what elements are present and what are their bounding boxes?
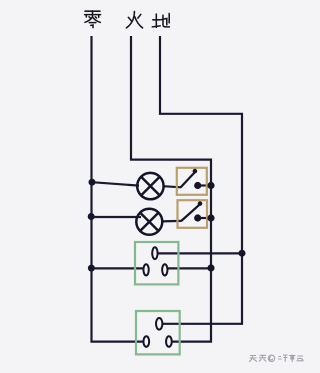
lamp L2 bbox=[136, 209, 162, 235]
label 火 (live) bbox=[126, 11, 142, 28]
junction: live bus / switch S2 output bbox=[207, 214, 214, 221]
switch S2 box bbox=[178, 200, 208, 228]
wire: lamp L2 to switch S2 bbox=[162, 220, 182, 223]
junction: neutral bus / lamp L1 wire bbox=[89, 179, 96, 186]
label 零 (neutral) bbox=[85, 11, 101, 28]
wire: socket X1 live pin to live bus bbox=[167, 267, 211, 269]
wire: neutral bus (零 line down and right to socket X2) bbox=[92, 36, 144, 342]
wire: switch S2 output to live bus bbox=[198, 217, 213, 219]
switch S1 box bbox=[177, 168, 207, 195]
socket X1 neutral slot bbox=[143, 264, 148, 275]
socket X2 neutral slot bbox=[143, 336, 149, 347]
wire: lamp L1 to switch S1 bbox=[163, 186, 181, 187]
wire: socket X1 earth pin to earth bus bbox=[158, 252, 243, 254]
wire: switch S1 output to live bus bbox=[198, 184, 213, 186]
lamp L1 bbox=[137, 173, 163, 199]
socket X2 box bbox=[136, 311, 180, 354]
junction: live bus / switch S1 output bbox=[207, 182, 214, 189]
switch S2 lever tip dot bbox=[198, 201, 203, 206]
switch S1 output terminal dot bbox=[194, 182, 201, 189]
socket X1 earth slot bbox=[152, 247, 157, 259]
wire: live bus (火 line down, right, down to socket X2) bbox=[131, 36, 211, 342]
junction: earth bus / socket X1 wire bbox=[239, 250, 246, 257]
junction: neutral bus / lamp L2 wire bbox=[88, 213, 95, 220]
switch S1 lever bbox=[181, 171, 196, 187]
wire: neutral to lamp L1 bbox=[92, 182, 139, 185]
socket X2 live slot bbox=[166, 336, 172, 347]
socket X1 box bbox=[135, 242, 178, 284]
switch S1 lever tip dot bbox=[193, 169, 198, 174]
wire: socket X1 neutral pin to neutral bus bbox=[92, 267, 144, 269]
socket X1 live slot bbox=[162, 264, 167, 275]
wire: earth bus (地 line down, right, down to socket X2) bbox=[160, 36, 242, 324]
switch S2 lever bbox=[181, 204, 200, 221]
switch S2 output terminal dot bbox=[194, 214, 201, 221]
socket X2 earth slot bbox=[156, 318, 162, 330]
junction: neutral bus / socket X1 wire bbox=[88, 265, 95, 272]
watermark 头条@许科云 bbox=[249, 355, 303, 363]
label 地 (earth) bbox=[152, 13, 169, 27]
junction: live bus / socket X1 wire bbox=[207, 264, 214, 271]
wire: neutral to lamp L2 bbox=[92, 216, 142, 218]
